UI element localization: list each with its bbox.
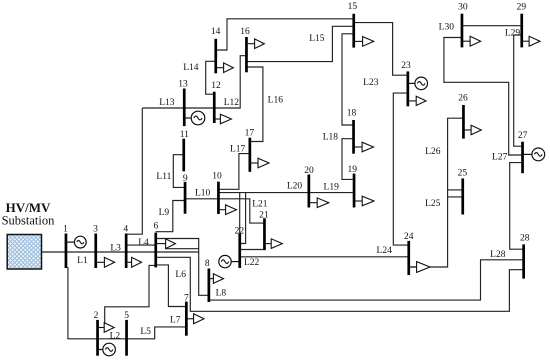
- svg-text:15: 15: [348, 2, 358, 12]
- svg-text:2: 2: [94, 311, 99, 321]
- svg-text:L28: L28: [490, 250, 506, 260]
- svg-text:L25: L25: [425, 199, 441, 209]
- svg-text:L23: L23: [363, 78, 379, 88]
- svg-text:20: 20: [304, 166, 314, 176]
- svg-text:L6: L6: [175, 270, 186, 280]
- svg-text:14: 14: [211, 27, 221, 37]
- svg-text:18: 18: [347, 109, 357, 119]
- svg-text:17: 17: [245, 129, 255, 139]
- svg-text:L10: L10: [195, 189, 211, 199]
- svg-text:29: 29: [517, 3, 527, 13]
- svg-text:10: 10: [212, 171, 222, 181]
- svg-text:28: 28: [520, 234, 530, 244]
- svg-text:L30: L30: [439, 23, 455, 33]
- svg-text:L9: L9: [159, 208, 170, 218]
- svg-text:27: 27: [518, 131, 528, 141]
- svg-text:24: 24: [404, 232, 414, 242]
- svg-text:L2: L2: [110, 331, 121, 341]
- svg-text:L24: L24: [377, 246, 393, 256]
- svg-text:L7: L7: [170, 315, 181, 325]
- svg-text:L18: L18: [323, 133, 339, 143]
- svg-text:Substation: Substation: [2, 214, 56, 228]
- svg-text:26: 26: [458, 94, 468, 104]
- svg-text:L29: L29: [505, 28, 521, 38]
- svg-text:L15: L15: [309, 34, 325, 44]
- svg-text:16: 16: [240, 27, 250, 37]
- svg-text:30: 30: [458, 2, 468, 12]
- svg-text:21: 21: [259, 211, 269, 221]
- svg-text:12: 12: [211, 81, 221, 91]
- svg-text:L22: L22: [244, 258, 260, 268]
- svg-text:23: 23: [401, 61, 411, 71]
- svg-text:L12: L12: [224, 98, 240, 108]
- svg-text:8: 8: [205, 259, 210, 269]
- svg-text:L27: L27: [492, 153, 508, 163]
- svg-text:L19: L19: [324, 183, 340, 193]
- svg-text:L17: L17: [230, 145, 246, 155]
- svg-text:4: 4: [123, 225, 128, 235]
- svg-text:3: 3: [93, 225, 98, 235]
- svg-text:6: 6: [154, 222, 159, 232]
- svg-text:L13: L13: [159, 98, 175, 108]
- svg-text:1: 1: [63, 225, 68, 235]
- svg-text:L3: L3: [110, 244, 121, 254]
- svg-text:L26: L26: [425, 147, 441, 157]
- svg-text:5: 5: [124, 311, 129, 321]
- svg-text:L11: L11: [156, 172, 171, 182]
- svg-text:9: 9: [183, 174, 188, 184]
- svg-text:L14: L14: [183, 63, 199, 73]
- svg-text:L4: L4: [138, 238, 149, 248]
- svg-text:22: 22: [235, 226, 245, 236]
- svg-text:L21: L21: [252, 200, 268, 210]
- svg-text:7: 7: [184, 294, 189, 304]
- svg-text:19: 19: [347, 165, 357, 175]
- svg-text:25: 25: [458, 169, 468, 179]
- svg-text:L1: L1: [77, 256, 88, 266]
- svg-text:11: 11: [180, 130, 189, 140]
- svg-text:13: 13: [178, 79, 188, 89]
- svg-text:L20: L20: [287, 182, 303, 192]
- svg-text:L5: L5: [140, 327, 151, 337]
- svg-text:L8: L8: [216, 289, 227, 299]
- svg-text:L16: L16: [268, 96, 284, 106]
